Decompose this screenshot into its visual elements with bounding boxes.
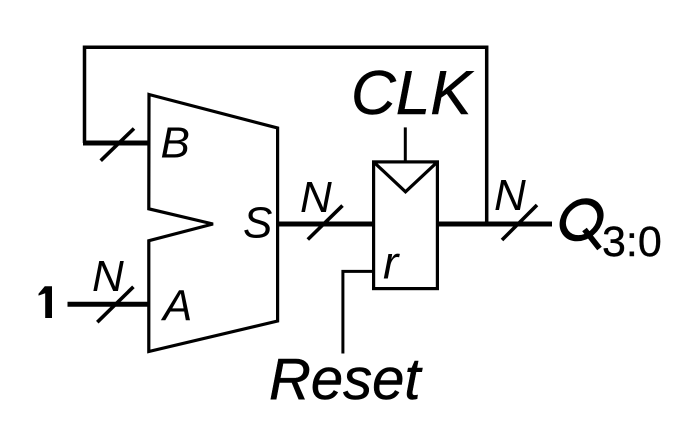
wire S bus xyxy=(276,222,375,227)
wire Q output bus xyxy=(436,222,552,227)
svg-text:Reset: Reset xyxy=(269,347,423,412)
slash on A bus xyxy=(97,287,133,322)
svg-text:S: S xyxy=(243,199,272,248)
wire CLK stub xyxy=(404,127,407,161)
slash on Q bus xyxy=(502,205,537,240)
svg-text:r: r xyxy=(383,237,400,289)
svg-text:B: B xyxy=(161,119,190,168)
svg-text:CLK: CLK xyxy=(351,59,474,128)
wire Reset xyxy=(343,271,374,353)
slash on B bus xyxy=(101,129,134,161)
slash on S bus xyxy=(308,206,343,240)
clock triangle of register xyxy=(374,162,438,192)
svg-text:3:0: 3:0 xyxy=(602,218,662,266)
adder U1 body xyxy=(149,95,278,352)
svg-text:N: N xyxy=(92,252,124,301)
svg-text:A: A xyxy=(160,282,192,331)
register U2 body xyxy=(374,162,438,289)
label Q (output ring) xyxy=(559,201,604,238)
label Q tail xyxy=(585,230,600,249)
svg-text:N: N xyxy=(494,171,526,220)
wire feedback top xyxy=(85,47,487,224)
wire B bus stub xyxy=(83,141,150,146)
svg-text:N: N xyxy=(300,173,332,222)
wire A bus stub xyxy=(68,302,151,307)
label 1 (constant input) xyxy=(39,286,53,318)
